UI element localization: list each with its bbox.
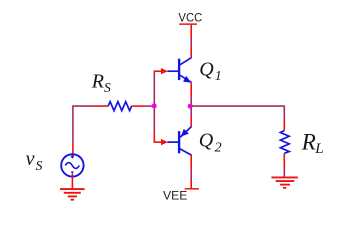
- wire collector to VEE: [190, 170, 192, 179]
- resistor RS zigzag: [108, 102, 131, 111]
- resistor RL top lead: [283, 118, 285, 130]
- wire emitter net upper: [190, 96, 192, 117]
- wire RL to ground: [283, 170, 285, 178]
- svg-text:VCC: VCC: [178, 11, 202, 25]
- svg-text:2: 2: [215, 141, 222, 156]
- wire base net (vertical): [153, 71, 155, 131]
- resistor RL zigzag: [280, 131, 289, 154]
- wire Q2 collector pin stub: [190, 155, 192, 170]
- ground (below source): [60, 189, 85, 200]
- wire VCC pin stub: [190, 24, 192, 38]
- wire source bottom pin stub: [71, 174, 73, 189]
- junction node B: [152, 103, 157, 108]
- svg-text:S: S: [36, 158, 43, 173]
- wire RS to node B: [145, 105, 155, 107]
- transistor Q1 (NPN): [167, 58, 191, 83]
- ground (below RL): [271, 177, 298, 187]
- svg-text:1: 1: [215, 69, 222, 84]
- resistor RS right lead: [132, 105, 145, 107]
- wire red stub to Q2 base corner: [153, 131, 155, 143]
- wire RS to source corner: [73, 106, 92, 144]
- svg-text:VEE: VEE: [163, 189, 187, 203]
- base input arrow Q2: [154, 141, 162, 143]
- resistor RS left lead: [92, 105, 108, 107]
- VEE rail symbol: [185, 188, 199, 190]
- svg-text:R: R: [301, 129, 316, 154]
- wire output node to RL corner: [191, 106, 284, 118]
- transistor Q2 (PNP): [167, 126, 191, 155]
- svg-text:L: L: [314, 141, 323, 157]
- wire Q2 emitter pin stub: [190, 117, 192, 127]
- svg-text:Q: Q: [199, 129, 214, 151]
- junction node E (output): [188, 104, 193, 109]
- wire VCC to Q1 collector: [190, 38, 192, 46]
- svg-text:Q: Q: [199, 59, 214, 81]
- source vS (AC): [61, 154, 83, 176]
- wire Q1 collector pin stub: [190, 46, 192, 58]
- svg-text:S: S: [104, 80, 111, 95]
- svg-text:v: v: [26, 148, 35, 170]
- wire VEE pin stub: [190, 179, 192, 189]
- svg-text:R: R: [91, 71, 104, 93]
- base input arrow Q1: [154, 70, 162, 72]
- wire Q1 emitter pin stub: [190, 82, 192, 96]
- wire source top pin stub: [72, 144, 74, 158]
- VCC rail symbol: [179, 23, 197, 25]
- resistor RL bottom lead: [283, 153, 285, 169]
